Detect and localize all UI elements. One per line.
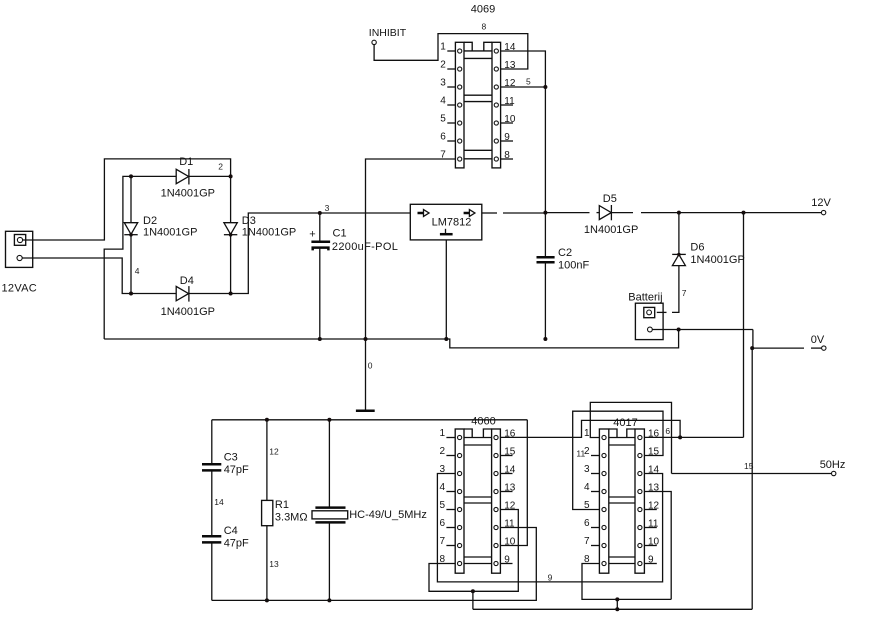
U1 pin numbers 1-7	[440, 42, 446, 161]
capacitor C2	[537, 257, 555, 262]
svg-text:4: 4	[584, 482, 590, 493]
junction C2 rail	[543, 211, 547, 215]
wire bridge output	[231, 213, 411, 294]
svg-text:4: 4	[440, 96, 446, 107]
diode D4	[176, 286, 189, 302]
IC U1 4069 body	[455, 42, 500, 168]
wire U2 pin8	[429, 510, 518, 592]
U1 right pin stubs 11,10,9,8	[501, 105, 513, 159]
svg-text:47pF: 47pF	[224, 537, 249, 549]
diode D3	[224, 223, 237, 237]
connector J2 Batterij	[635, 303, 663, 339]
junction 12V net6	[742, 211, 746, 215]
svg-text:1N4001GP: 1N4001GP	[143, 227, 197, 239]
junction 0V	[750, 346, 754, 350]
wire 50Hz	[672, 473, 832, 475]
wire bridge left rail	[130, 176, 132, 293]
svg-text:R1: R1	[275, 499, 289, 511]
svg-text:8: 8	[504, 150, 510, 161]
U1 pin numbers 14-8	[504, 42, 516, 161]
wire osc bottom rail	[212, 528, 537, 601]
svg-text:4: 4	[439, 482, 445, 493]
U3 pin numbers left	[584, 428, 590, 565]
wire U3 pin5 to pin15	[573, 411, 663, 509]
junction C1 rail	[318, 211, 322, 215]
svg-text:3: 3	[440, 78, 446, 89]
U2 pin numbers left	[439, 428, 445, 565]
wire gnd link b	[616, 599, 618, 609]
junction C2 gnd	[543, 337, 547, 341]
connector J1 12VAC	[6, 231, 33, 267]
junction bridge BR	[229, 292, 233, 296]
wire gnd link down	[472, 591, 474, 609]
wire bridge top rail	[131, 175, 231, 177]
wire bridge bottom rail	[131, 293, 231, 295]
regulator U5 LM7812	[410, 204, 482, 240]
svg-text:4017: 4017	[613, 417, 637, 429]
svg-text:6: 6	[440, 132, 446, 143]
wire U5 gnd pin	[445, 240, 447, 339]
svg-text:5: 5	[439, 500, 445, 511]
wire J1 pin2	[22, 258, 131, 294]
capacitor C4	[202, 536, 221, 542]
junction R1 bottom	[265, 598, 269, 602]
svg-text:8: 8	[482, 21, 487, 31]
svg-text:7: 7	[682, 288, 687, 298]
junction bridge TR	[229, 174, 233, 178]
svg-text:D5: D5	[603, 193, 617, 205]
svg-text:9: 9	[548, 572, 553, 582]
svg-text:INHIBIT: INHIBIT	[369, 27, 407, 39]
svg-text:11: 11	[504, 518, 515, 529]
svg-text:1N4001GP: 1N4001GP	[161, 188, 215, 200]
wire J1 pin1	[23, 159, 231, 240]
svg-text:1N4001GP: 1N4001GP	[584, 224, 638, 236]
svg-text:D2: D2	[143, 215, 157, 227]
wire 0V	[753, 347, 822, 349]
U3 right pin stubs	[644, 510, 656, 564]
svg-text:3.3MΩ: 3.3MΩ	[275, 511, 308, 523]
wire 0V down	[751, 348, 753, 609]
svg-text:12: 12	[648, 500, 660, 511]
diode D5	[599, 205, 611, 220]
wire osc left chain C3 C4	[211, 420, 213, 601]
svg-text:C1: C1	[333, 228, 347, 240]
terminal INHIBIT	[369, 27, 407, 44]
U2 right pin stubs	[500, 456, 512, 564]
svg-text:100nF: 100nF	[558, 260, 589, 272]
wire D5 to 12V	[611, 212, 821, 214]
wire C2 bottom	[544, 262, 546, 339]
capacitor C1	[309, 229, 330, 251]
svg-text:11: 11	[504, 96, 515, 107]
IC U3 4017 body	[599, 429, 644, 573]
svg-text:3: 3	[584, 464, 590, 475]
svg-text:5: 5	[526, 77, 531, 87]
svg-text:1: 1	[439, 428, 445, 439]
junction U5 gnd	[444, 337, 448, 341]
svg-text:C3: C3	[224, 452, 238, 464]
wire bridge right rail	[230, 176, 232, 293]
junction U2 gnd link	[471, 589, 475, 593]
svg-text:C2: C2	[558, 247, 572, 259]
svg-text:11: 11	[576, 448, 585, 458]
svg-text:+: +	[309, 229, 315, 241]
svg-text:2: 2	[439, 446, 445, 457]
svg-text:14: 14	[648, 464, 660, 475]
svg-text:3: 3	[325, 203, 330, 213]
wire U1 pin7 to ground	[366, 159, 456, 339]
wire ground bus	[104, 330, 678, 348]
svg-text:13: 13	[504, 482, 516, 493]
U3 left pin stubs	[591, 456, 599, 546]
junction pin8 gnd a	[615, 597, 619, 601]
svg-text:D4: D4	[180, 275, 194, 287]
diode D1	[176, 169, 189, 185]
terminal 50Hz	[820, 459, 846, 476]
junction C1 gnd	[318, 337, 322, 341]
svg-text:12VAC: 12VAC	[2, 282, 38, 294]
U1 left pin stubs 1-6	[447, 51, 455, 141]
capacitor C3	[202, 464, 221, 470]
svg-text:47pF: 47pF	[224, 464, 249, 476]
junction net6 U3 pin16	[678, 435, 682, 439]
junction X1 top	[327, 418, 331, 422]
wire 0V bottom bus	[473, 608, 752, 610]
wire U2 pin10	[500, 420, 527, 546]
svg-text:Batterij: Batterij	[628, 292, 662, 304]
wire U2 pin3 net 9	[437, 474, 662, 582]
svg-text:1N4001GP: 1N4001GP	[242, 227, 296, 239]
wire U1 pin14	[501, 51, 546, 213]
svg-text:0: 0	[368, 361, 373, 371]
svg-text:4060: 4060	[471, 416, 495, 428]
wire U3 pin16	[644, 436, 743, 438]
svg-text:6: 6	[439, 518, 445, 529]
junction bridge BL	[129, 292, 133, 296]
wire pin2 riser to 0V	[752, 330, 754, 349]
svg-text:HC-49/U_5MHz: HC-49/U_5MHz	[349, 509, 427, 521]
wire D6 to battery pin1	[657, 266, 679, 313]
svg-text:D1: D1	[179, 156, 193, 168]
wire U3 pin8	[582, 564, 671, 600]
wire U5 output	[482, 212, 546, 214]
U2 left pin stubs	[446, 438, 455, 546]
svg-text:6: 6	[665, 426, 670, 436]
svg-text:1: 1	[440, 42, 446, 53]
terminal 0V	[811, 334, 826, 350]
wire 12V to U3 pin16	[743, 213, 745, 438]
svg-text:9: 9	[648, 554, 654, 565]
svg-text:15: 15	[744, 461, 754, 471]
svg-text:1N4001GP: 1N4001GP	[161, 306, 215, 318]
diode D6	[672, 253, 686, 266]
svg-text:11: 11	[648, 518, 659, 529]
svg-text:12: 12	[269, 447, 279, 457]
svg-text:14: 14	[214, 497, 224, 507]
ground symbol 0	[356, 339, 375, 411]
svg-text:1: 1	[584, 428, 590, 439]
wire U1 pin12	[501, 86, 546, 88]
wire INHIBIT to node	[374, 34, 528, 69]
svg-text:2200uF-POL: 2200uF-POL	[332, 241, 398, 253]
junction X1 bottom	[327, 598, 331, 602]
junction pin8 gnd b	[615, 607, 619, 611]
resistor R1	[262, 420, 273, 601]
svg-text:5: 5	[440, 114, 446, 125]
svg-text:2: 2	[440, 60, 446, 71]
svg-text:4069: 4069	[471, 4, 495, 16]
svg-text:0V: 0V	[811, 334, 825, 346]
wire bridge node to ground line	[104, 176, 131, 339]
svg-text:7: 7	[584, 536, 590, 547]
svg-text:2: 2	[218, 162, 223, 172]
terminal 12V	[811, 197, 831, 215]
svg-text:9: 9	[504, 554, 510, 565]
wire U2 pin16 net 6	[500, 420, 680, 437]
wire D6 top	[678, 213, 680, 255]
junction D6 top	[677, 211, 681, 215]
svg-text:12V: 12V	[811, 197, 831, 209]
svg-text:D6: D6	[690, 242, 704, 254]
svg-text:13: 13	[269, 559, 279, 569]
diode D2	[124, 223, 137, 237]
svg-text:10: 10	[504, 114, 516, 125]
IC U2 4060 body	[455, 429, 500, 573]
U2 pin numbers right	[504, 428, 516, 565]
junction R1 top	[265, 418, 269, 422]
svg-text:1N4001GP: 1N4001GP	[690, 254, 744, 266]
svg-text:4: 4	[135, 266, 140, 276]
svg-text:9: 9	[504, 132, 510, 143]
svg-text:15: 15	[504, 446, 516, 457]
wire J2 pin2	[652, 329, 753, 331]
svg-text:6: 6	[584, 518, 590, 529]
svg-text:C4: C4	[224, 525, 238, 537]
svg-text:7: 7	[439, 536, 445, 547]
svg-text:LM7812: LM7812	[432, 216, 472, 228]
wire U3 pin1 to 50Hz	[590, 402, 671, 473]
junction U1 p12/p14	[543, 85, 547, 89]
junction bridge TL	[129, 174, 133, 178]
wire U3 pin13	[644, 492, 671, 600]
wire osc top rail	[212, 419, 528, 421]
wire C2 top	[544, 213, 546, 257]
wire C1 top	[319, 213, 321, 242]
svg-text:10: 10	[648, 536, 660, 547]
wire rail to D5	[545, 212, 599, 214]
junction gnd 4069	[364, 337, 368, 341]
wire C1 bottom	[319, 248, 321, 339]
crystal X1	[312, 420, 348, 601]
svg-text:14: 14	[504, 464, 516, 475]
junction J2 pin2 gnd riser	[677, 328, 681, 332]
U3 pin numbers right	[648, 428, 660, 565]
svg-text:50Hz: 50Hz	[820, 459, 846, 471]
